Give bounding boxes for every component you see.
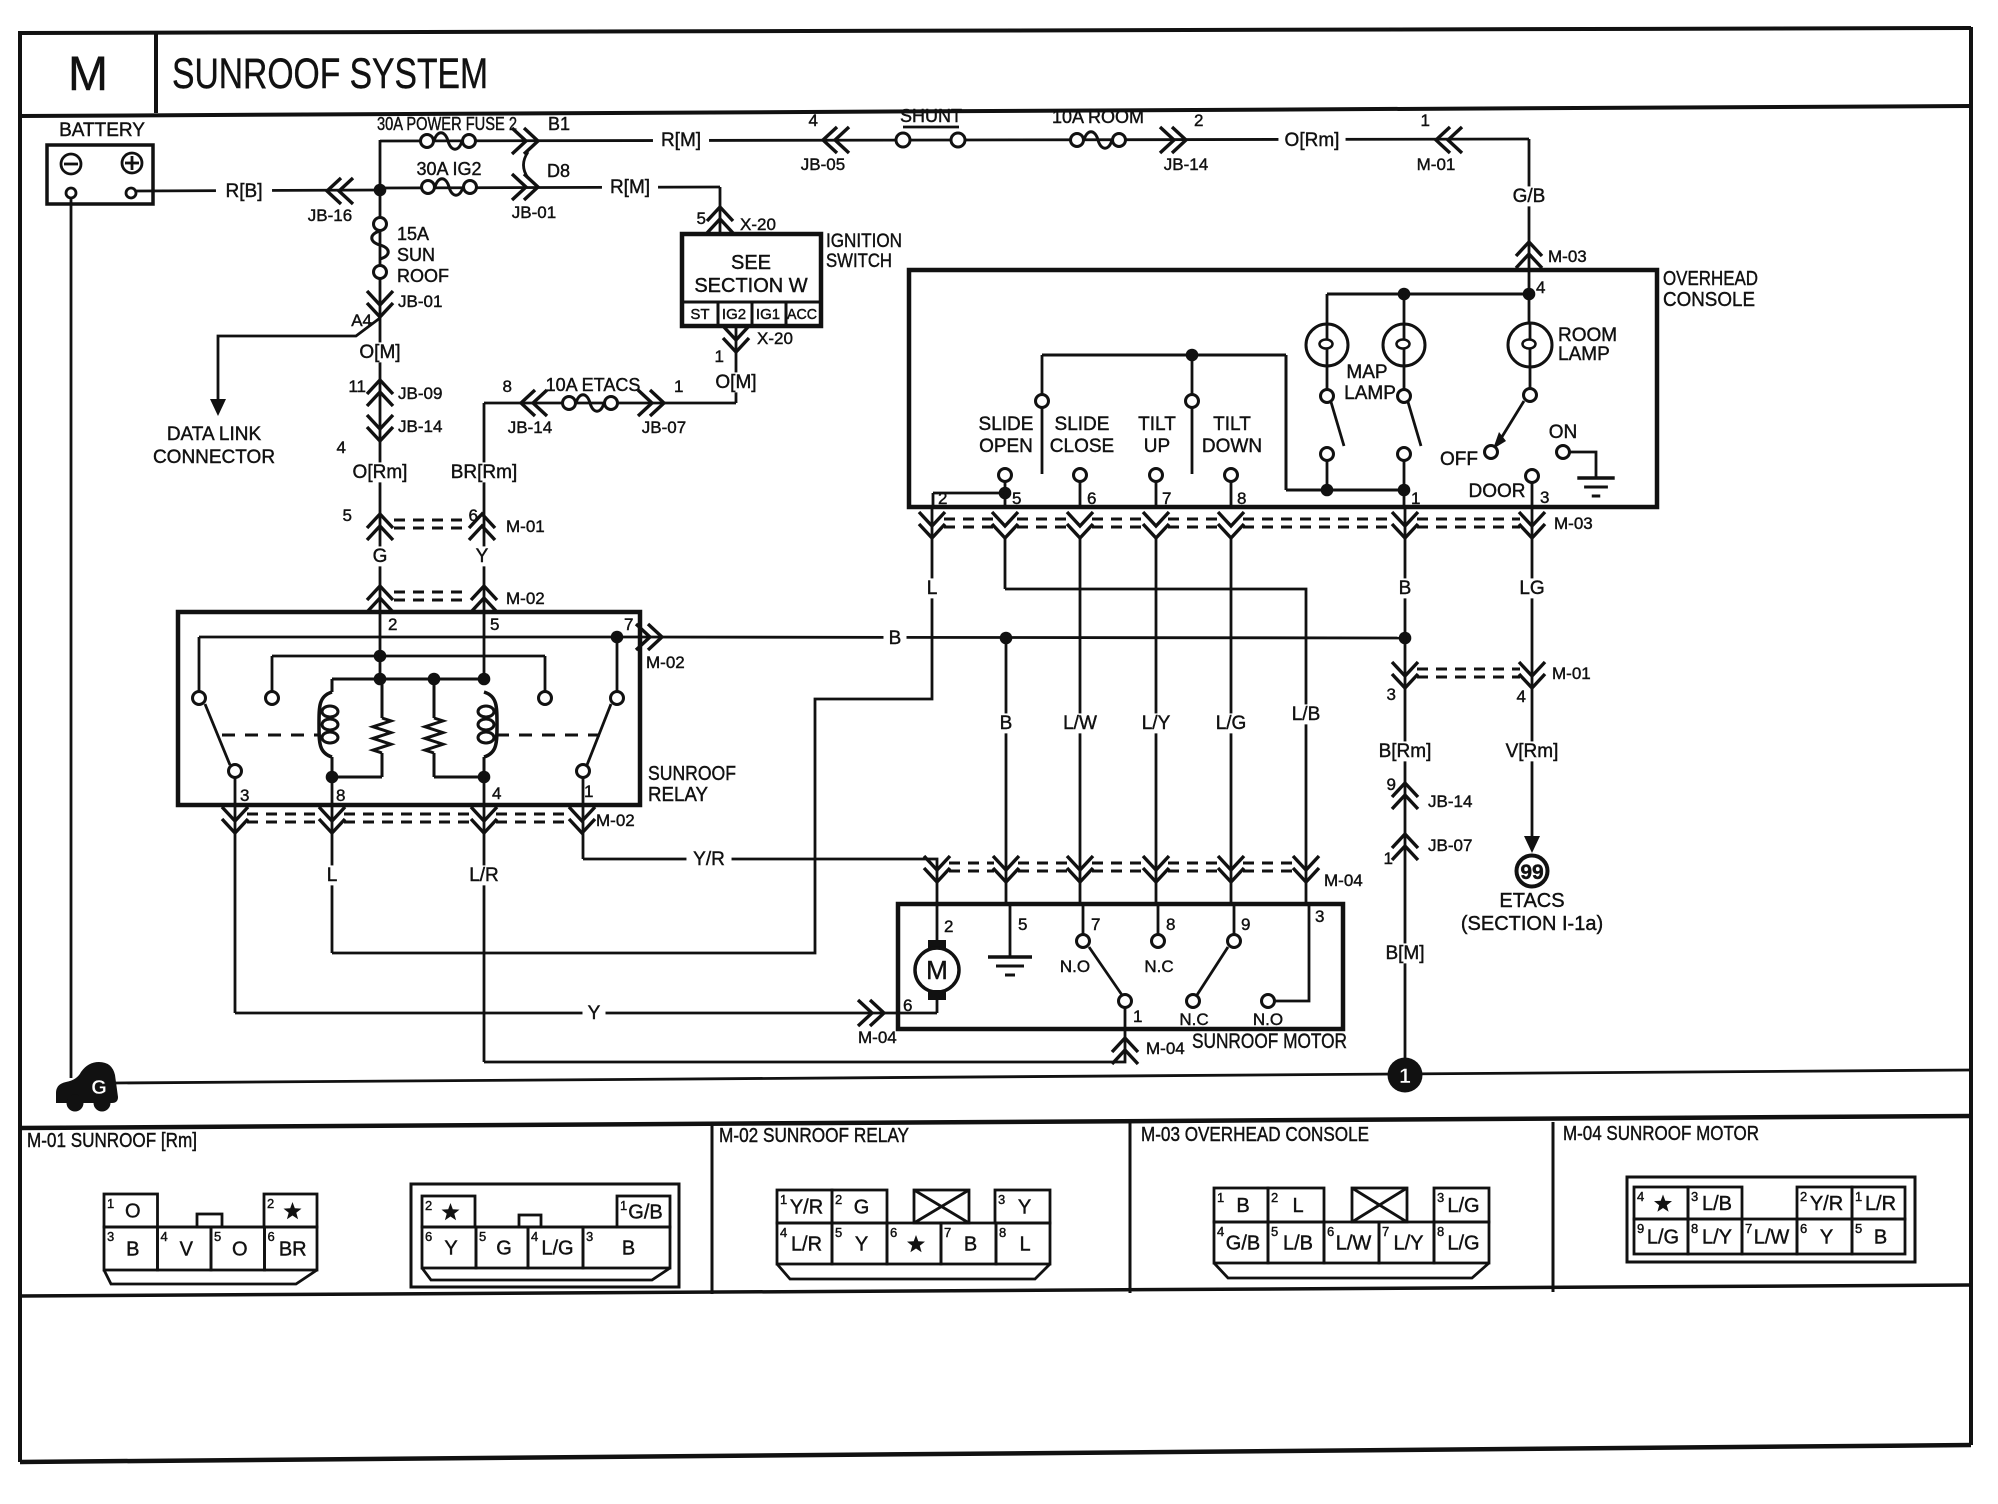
svg-text:Y: Y bbox=[588, 1003, 601, 1024]
svg-text:SUN: SUN bbox=[397, 245, 435, 265]
svg-text:4: 4 bbox=[1517, 687, 1526, 706]
svg-text:6: 6 bbox=[268, 1229, 275, 1244]
svg-text:IGNITION: IGNITION bbox=[826, 231, 902, 252]
svg-text:L/W: L/W bbox=[1063, 713, 1097, 734]
svg-text:BR: BR bbox=[279, 1239, 307, 1261]
svg-text:5: 5 bbox=[490, 615, 499, 634]
svg-text:O[M]: O[M] bbox=[715, 372, 756, 393]
svg-text:B: B bbox=[1874, 1227, 1887, 1249]
svg-text:L/G: L/G bbox=[1216, 713, 1247, 734]
svg-text:X-20: X-20 bbox=[757, 329, 793, 348]
svg-text:IG2: IG2 bbox=[722, 306, 746, 323]
svg-text:G: G bbox=[854, 1197, 870, 1219]
svg-text:ROOF: ROOF bbox=[397, 266, 449, 286]
svg-text:1: 1 bbox=[1421, 111, 1430, 130]
svg-text:DOWN: DOWN bbox=[1202, 436, 1262, 457]
svg-text:LG: LG bbox=[1519, 578, 1544, 599]
svg-text:R[M]: R[M] bbox=[661, 130, 701, 151]
svg-text:2: 2 bbox=[388, 615, 397, 634]
svg-text:3: 3 bbox=[1315, 907, 1324, 926]
svg-text:3: 3 bbox=[586, 1229, 593, 1244]
svg-text:JB-16: JB-16 bbox=[308, 206, 352, 225]
svg-text:9: 9 bbox=[1387, 775, 1396, 794]
svg-text:L/W: L/W bbox=[1754, 1227, 1790, 1249]
svg-text:M-01: M-01 bbox=[1552, 664, 1591, 683]
svg-text:L: L bbox=[1019, 1234, 1030, 1256]
svg-text:IG1: IG1 bbox=[756, 306, 780, 323]
svg-text:SEE: SEE bbox=[731, 252, 771, 274]
svg-text:6: 6 bbox=[1800, 1221, 1807, 1236]
svg-text:L: L bbox=[1292, 1195, 1303, 1217]
svg-text:B1: B1 bbox=[548, 114, 570, 134]
svg-text:2: 2 bbox=[835, 1192, 842, 1207]
svg-text:8: 8 bbox=[999, 1225, 1006, 1240]
svg-text:2: 2 bbox=[1800, 1189, 1807, 1204]
svg-text:DATA LINK: DATA LINK bbox=[167, 424, 262, 445]
svg-text:BR[Rm]: BR[Rm] bbox=[451, 462, 518, 483]
svg-text:1: 1 bbox=[1411, 489, 1420, 508]
svg-text:1: 1 bbox=[715, 347, 724, 366]
svg-text:1: 1 bbox=[1133, 1007, 1142, 1026]
svg-text:5: 5 bbox=[479, 1229, 486, 1244]
svg-text:ROOM: ROOM bbox=[1558, 325, 1617, 346]
svg-text:6: 6 bbox=[469, 506, 478, 525]
svg-text:L/R: L/R bbox=[469, 865, 499, 886]
svg-text:M-04: M-04 bbox=[858, 1028, 897, 1047]
svg-text:6: 6 bbox=[890, 1225, 897, 1240]
svg-text:2: 2 bbox=[944, 917, 953, 936]
svg-text:4: 4 bbox=[531, 1229, 538, 1244]
svg-text:L/R: L/R bbox=[791, 1234, 822, 1256]
svg-text:1: 1 bbox=[674, 377, 683, 396]
svg-text:1: 1 bbox=[107, 1196, 114, 1211]
svg-text:7: 7 bbox=[1745, 1221, 1752, 1236]
svg-text:R[M]: R[M] bbox=[610, 177, 650, 198]
svg-text:5: 5 bbox=[835, 1225, 842, 1240]
svg-text:8: 8 bbox=[1437, 1224, 1444, 1239]
svg-text:3: 3 bbox=[1691, 1189, 1698, 1204]
svg-text:4: 4 bbox=[1217, 1224, 1224, 1239]
svg-text:8: 8 bbox=[503, 377, 512, 396]
svg-text:4: 4 bbox=[492, 784, 501, 803]
svg-text:CLOSE: CLOSE bbox=[1050, 436, 1114, 457]
svg-text:4: 4 bbox=[337, 438, 346, 457]
svg-text:SLIDE: SLIDE bbox=[1055, 414, 1110, 435]
svg-text:G/B: G/B bbox=[1513, 186, 1546, 207]
svg-text:2: 2 bbox=[938, 489, 947, 508]
svg-text:L/G: L/G bbox=[1647, 1227, 1679, 1249]
svg-text:B: B bbox=[622, 1238, 635, 1260]
svg-text:M-04 SUNROOF MOTOR: M-04 SUNROOF MOTOR bbox=[1563, 1123, 1759, 1145]
svg-text:7: 7 bbox=[1091, 915, 1100, 934]
svg-text:M: M bbox=[68, 48, 108, 101]
svg-text:M-01: M-01 bbox=[1417, 155, 1456, 174]
svg-text:X-20: X-20 bbox=[740, 215, 776, 234]
svg-text:B[Rm]: B[Rm] bbox=[1379, 741, 1432, 762]
svg-text:M-03 OVERHEAD CONSOLE: M-03 OVERHEAD CONSOLE bbox=[1141, 1124, 1369, 1146]
svg-text:UP: UP bbox=[1144, 436, 1170, 457]
svg-text:B: B bbox=[964, 1234, 977, 1256]
svg-text:L/G: L/G bbox=[541, 1238, 573, 1260]
svg-text:L: L bbox=[927, 578, 938, 599]
svg-text:4: 4 bbox=[1637, 1189, 1644, 1204]
svg-text:M-02: M-02 bbox=[596, 811, 635, 830]
svg-text:N.C: N.C bbox=[1179, 1010, 1208, 1029]
svg-text:JB-14: JB-14 bbox=[508, 418, 552, 437]
svg-text:4: 4 bbox=[1536, 278, 1545, 297]
svg-text:OFF: OFF bbox=[1440, 449, 1478, 470]
svg-text:SECTION W: SECTION W bbox=[694, 275, 807, 297]
svg-text:B: B bbox=[1236, 1195, 1249, 1217]
svg-text:1: 1 bbox=[1399, 1065, 1411, 1088]
svg-text:JB-14: JB-14 bbox=[1164, 155, 1208, 174]
svg-text:2: 2 bbox=[1271, 1190, 1278, 1205]
svg-text:B: B bbox=[889, 628, 902, 649]
svg-text:SLIDE: SLIDE bbox=[979, 414, 1034, 435]
svg-text:30A POWER FUSE 2: 30A POWER FUSE 2 bbox=[377, 114, 517, 134]
svg-text:5: 5 bbox=[697, 209, 706, 228]
svg-text:3: 3 bbox=[1540, 488, 1549, 507]
svg-text:V: V bbox=[180, 1239, 194, 1261]
svg-text:DOOR: DOOR bbox=[1469, 481, 1526, 502]
svg-text:1: 1 bbox=[620, 1198, 627, 1213]
svg-text:2: 2 bbox=[267, 1196, 274, 1211]
svg-text:5: 5 bbox=[1855, 1221, 1862, 1236]
svg-text:10A ROOM: 10A ROOM bbox=[1052, 107, 1144, 127]
svg-text:4: 4 bbox=[809, 111, 818, 130]
svg-text:JB-09: JB-09 bbox=[398, 384, 442, 403]
svg-text:9: 9 bbox=[1241, 915, 1250, 934]
svg-text:BATTERY: BATTERY bbox=[59, 120, 145, 141]
svg-text:6: 6 bbox=[425, 1229, 432, 1244]
svg-text:5: 5 bbox=[1018, 915, 1027, 934]
svg-text:JB-01: JB-01 bbox=[398, 292, 442, 311]
svg-text:B: B bbox=[1399, 578, 1412, 599]
svg-text:2: 2 bbox=[425, 1198, 432, 1213]
svg-text:5: 5 bbox=[343, 506, 352, 525]
svg-text:G/B: G/B bbox=[628, 1202, 662, 1224]
svg-text:4: 4 bbox=[161, 1229, 168, 1244]
svg-text:1: 1 bbox=[584, 782, 593, 801]
svg-text:SHUNT: SHUNT bbox=[900, 106, 962, 126]
svg-text:M-03: M-03 bbox=[1554, 514, 1593, 533]
svg-text:TILT: TILT bbox=[1138, 414, 1176, 435]
svg-text:7: 7 bbox=[1382, 1224, 1389, 1239]
svg-text:3: 3 bbox=[998, 1192, 1005, 1207]
svg-text:7: 7 bbox=[1162, 489, 1171, 508]
svg-text:ST: ST bbox=[690, 306, 709, 323]
svg-text:3: 3 bbox=[1387, 685, 1396, 704]
svg-text:L/W: L/W bbox=[1336, 1233, 1372, 1255]
svg-text:30A IG2: 30A IG2 bbox=[416, 159, 481, 179]
svg-text:8: 8 bbox=[336, 786, 345, 805]
svg-text:Y: Y bbox=[1018, 1197, 1031, 1219]
svg-text:O[Rm]: O[Rm] bbox=[1285, 130, 1340, 151]
svg-text:RELAY: RELAY bbox=[648, 784, 708, 806]
svg-text:L/Y: L/Y bbox=[1142, 713, 1171, 734]
svg-text:CONSOLE: CONSOLE bbox=[1663, 289, 1755, 311]
svg-text:TILT: TILT bbox=[1213, 414, 1251, 435]
svg-text:JB-07: JB-07 bbox=[1428, 836, 1472, 855]
svg-text:L/Y: L/Y bbox=[1702, 1227, 1732, 1249]
svg-text:N.O: N.O bbox=[1060, 957, 1090, 976]
svg-text:N.C: N.C bbox=[1144, 957, 1173, 976]
svg-text:O: O bbox=[125, 1201, 141, 1223]
svg-text:1: 1 bbox=[780, 1192, 787, 1207]
svg-text:5: 5 bbox=[1271, 1224, 1278, 1239]
svg-text:L/B: L/B bbox=[1283, 1233, 1313, 1255]
svg-text:M-02 SUNROOF RELAY: M-02 SUNROOF RELAY bbox=[719, 1125, 909, 1147]
svg-text:6: 6 bbox=[1087, 489, 1096, 508]
svg-text:SUNROOF SYSTEM: SUNROOF SYSTEM bbox=[172, 50, 488, 98]
svg-text:3: 3 bbox=[107, 1229, 114, 1244]
svg-text:L: L bbox=[327, 865, 338, 886]
svg-text:M-01: M-01 bbox=[506, 517, 545, 536]
svg-text:G: G bbox=[373, 546, 388, 567]
svg-text:8: 8 bbox=[1691, 1221, 1698, 1236]
svg-text:JB-07: JB-07 bbox=[642, 418, 686, 437]
svg-text:3: 3 bbox=[240, 786, 249, 805]
svg-text:LAMP: LAMP bbox=[1558, 344, 1610, 365]
svg-text:ACC: ACC bbox=[787, 306, 817, 323]
svg-text:G: G bbox=[496, 1238, 512, 1260]
svg-text:(SECTION I-1a): (SECTION I-1a) bbox=[1461, 913, 1603, 935]
svg-text:Y/R: Y/R bbox=[693, 849, 725, 870]
svg-text:G/B: G/B bbox=[1226, 1233, 1260, 1255]
svg-text:LAMP: LAMP bbox=[1344, 383, 1396, 404]
svg-text:10A ETACS: 10A ETACS bbox=[546, 375, 641, 395]
svg-text:4: 4 bbox=[780, 1225, 787, 1240]
svg-text:99: 99 bbox=[1520, 861, 1543, 884]
svg-text:1: 1 bbox=[1855, 1189, 1862, 1204]
svg-text:JB-01: JB-01 bbox=[512, 203, 556, 222]
svg-text:OPEN: OPEN bbox=[979, 436, 1033, 457]
svg-text:SWITCH: SWITCH bbox=[826, 251, 892, 272]
svg-text:5: 5 bbox=[214, 1229, 221, 1244]
svg-text:SUNROOF: SUNROOF bbox=[648, 763, 736, 785]
svg-text:M: M bbox=[926, 955, 948, 985]
svg-text:G: G bbox=[91, 1077, 107, 1099]
svg-text:7: 7 bbox=[624, 615, 633, 634]
svg-text:M-03: M-03 bbox=[1548, 247, 1587, 266]
svg-text:L/B: L/B bbox=[1292, 704, 1321, 725]
svg-text:N.O: N.O bbox=[1253, 1010, 1283, 1029]
svg-text:ETACS: ETACS bbox=[1499, 890, 1564, 912]
svg-text:CONNECTOR: CONNECTOR bbox=[153, 447, 275, 468]
svg-text:1: 1 bbox=[1217, 1190, 1224, 1205]
svg-text:L/G: L/G bbox=[1447, 1233, 1479, 1255]
svg-text:Y/R: Y/R bbox=[1810, 1193, 1843, 1215]
svg-text:O: O bbox=[232, 1239, 248, 1261]
svg-text:M-01 SUNROOF [Rm]: M-01 SUNROOF [Rm] bbox=[27, 1130, 197, 1152]
svg-text:M-04: M-04 bbox=[1324, 871, 1363, 890]
svg-text:Y/R: Y/R bbox=[790, 1197, 823, 1219]
svg-text:JB-14: JB-14 bbox=[398, 417, 442, 436]
svg-text:O[Rm]: O[Rm] bbox=[353, 462, 408, 483]
svg-text:B[M]: B[M] bbox=[1385, 943, 1424, 964]
svg-text:L/G: L/G bbox=[1447, 1195, 1479, 1217]
svg-text:Y: Y bbox=[476, 546, 489, 567]
svg-text:L/R: L/R bbox=[1865, 1193, 1896, 1215]
svg-text:11: 11 bbox=[348, 377, 366, 396]
svg-text:B: B bbox=[1000, 713, 1013, 734]
svg-text:ON: ON bbox=[1549, 422, 1578, 443]
svg-text:8: 8 bbox=[1237, 489, 1246, 508]
svg-text:JB-05: JB-05 bbox=[801, 155, 845, 174]
svg-text:SUNROOF MOTOR: SUNROOF MOTOR bbox=[1192, 1030, 1347, 1053]
svg-text:O[M]: O[M] bbox=[359, 342, 400, 363]
svg-text:1: 1 bbox=[1384, 849, 1393, 868]
svg-text:V[Rm]: V[Rm] bbox=[1506, 741, 1559, 762]
svg-text:B: B bbox=[126, 1239, 139, 1261]
svg-text:M-02: M-02 bbox=[506, 589, 545, 608]
svg-text:3: 3 bbox=[1437, 1190, 1444, 1205]
svg-text:2: 2 bbox=[1194, 111, 1203, 130]
svg-text:JB-14: JB-14 bbox=[1428, 792, 1472, 811]
svg-text:9: 9 bbox=[1637, 1221, 1644, 1236]
svg-text:L/Y: L/Y bbox=[1393, 1233, 1423, 1255]
svg-text:M-04: M-04 bbox=[1146, 1039, 1185, 1058]
svg-text:L/B: L/B bbox=[1702, 1193, 1732, 1215]
svg-text:R[B]: R[B] bbox=[226, 181, 263, 202]
svg-text:Y: Y bbox=[855, 1234, 868, 1256]
svg-text:Y: Y bbox=[1820, 1227, 1833, 1249]
svg-text:D8: D8 bbox=[547, 161, 570, 181]
svg-text:8: 8 bbox=[1166, 915, 1175, 934]
svg-text:MAP: MAP bbox=[1346, 362, 1387, 383]
svg-text:15A: 15A bbox=[397, 224, 429, 244]
svg-text:5: 5 bbox=[1012, 489, 1021, 508]
svg-text:6: 6 bbox=[1327, 1224, 1334, 1239]
svg-text:OVERHEAD: OVERHEAD bbox=[1663, 268, 1758, 290]
svg-text:M-02: M-02 bbox=[646, 653, 685, 672]
svg-text:Y: Y bbox=[444, 1238, 457, 1260]
svg-text:7: 7 bbox=[944, 1225, 951, 1240]
